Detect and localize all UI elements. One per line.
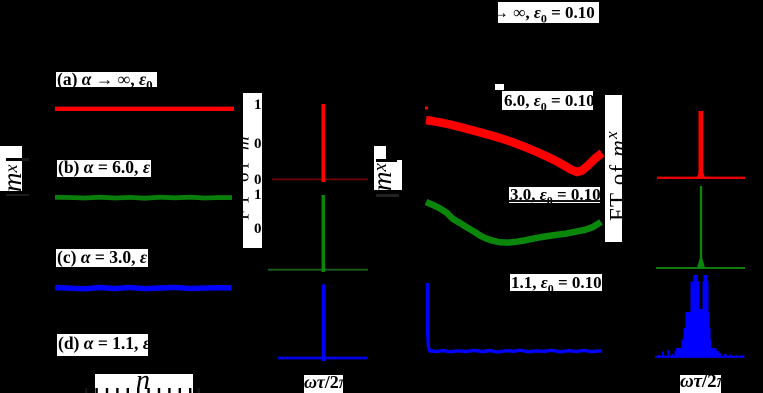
col2 FT axis strip [243,93,262,248]
col2 green FT spike [322,195,326,272]
col3 red start dot [425,107,428,110]
col2 tick digits [252,97,262,114]
col3 label a: -> inf eps0 = 0.10 [498,2,599,23]
col2 blue FT baseline [278,357,368,360]
col4 red FT baseline [657,177,745,179]
top bar of |m^x| [6,158,22,161]
label (d) alpha = 1.1 box [57,334,148,356]
label (a) alpha -> inf box, top-clipped text [56,72,157,87]
label (b) alpha = 6.0 box [57,160,151,177]
col1 blue line (c) [55,287,231,288]
col3 red curve (alpha=6.0) [426,120,602,172]
col2 x-axis label omega tau / 2 pi [304,375,343,393]
col3 label d: 1.1 eps0 = 0.10 [510,274,602,291]
col2 blue FT spike [322,285,326,362]
rotated m^x left [0,165,28,193]
col4 green FT baseline [656,267,745,269]
tick dashes under n label [85,388,200,393]
col3 label c: 3.0 eps0 = 0.10 with dark line [509,187,600,203]
bottom bar of |m^x| (faint on black) [6,194,29,197]
col4 x-axis label omega tau / 2 pi [680,375,721,393]
col4 blue FT baseline [655,356,745,358]
col3 blue curve flat noisy [429,348,603,352]
col4 FT axis strip [605,95,622,242]
col4 blue skirt bumps [658,355,660,357]
x-axis label n box [95,374,193,393]
left y-axis |m^x| label box [0,146,22,191]
col2 rotated FT of m^x [229,123,254,220]
col4 red FT spike [698,111,703,178]
col3 green curve (alpha=3.0) [426,202,601,243]
col1 red line (a) [55,107,234,111]
col3 m^x y-label boxes [374,146,386,160]
white fragment above 6.0 label [495,84,504,90]
col2 green FT baseline [268,269,368,271]
col4 green FT spike [700,186,702,268]
col1 green line (b) [55,197,232,198]
col2 red FT spike [321,104,325,182]
col3 label b: 6.0 eps0 = 0.10 [502,91,593,110]
col2 red FT baseline [272,178,368,180]
col4 green FT spike flare [697,254,705,269]
col4 red FT spike flare [697,167,706,179]
col3 blue curve (alpha=1.1) drop [428,283,429,348]
col4 blue FT peak tower and skirt [658,275,743,357]
label (c) alpha = 3.0 box [56,249,148,267]
